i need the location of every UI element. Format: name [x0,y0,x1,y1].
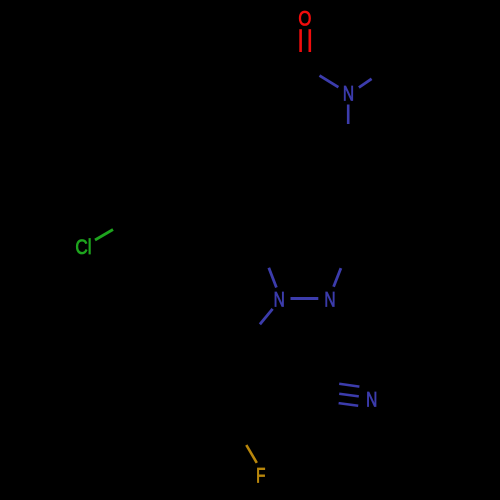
bond N1-aryl (blue half) [260,309,273,324]
svg-text:N: N [366,388,377,411]
nitrile triple bond line 3 [339,403,359,406]
bond F-aryl (gold half) [246,445,256,463]
bond N1-C5 (blue half) [269,268,277,288]
svg-text:O: O [298,7,311,30]
bond C(=O)-N (blue half) [320,76,339,88]
svg-text:F: F [256,465,265,488]
C=O double bond (red halves) [299,29,302,52]
nitrile triple bond line 2 [339,394,359,397]
bond Cl-aryl (green half) [95,230,113,241]
nitrile triple bond line 1 [339,384,359,387]
bond N1-N2 [291,297,319,300]
bond N-CH2 (blue half) [347,105,350,125]
svg-text:N: N [343,83,354,106]
bond N2-C3 (blue half) [334,268,341,287]
svg-text:N: N [324,289,335,312]
svg-text:N: N [274,289,285,312]
bond N-CH3 (blue half) [359,79,372,88]
svg-text:Cl: Cl [75,236,91,259]
